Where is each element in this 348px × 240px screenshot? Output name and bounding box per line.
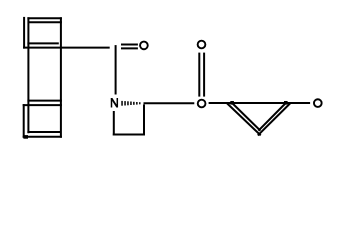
cage bottom-left corner junction dot — [23, 135, 28, 139]
vertex dot at bicyclobutane back-left bridgehead — [230, 101, 234, 105]
atom label O (carbonate carbonyl oxygen, top) — [198, 41, 206, 49]
hash dash 6 — [136, 102, 138, 105]
vertex dot at bicyclobutane back-right bridgehead — [284, 101, 288, 105]
bicyclobutane outer (front) right edge — [258, 103, 291, 135]
bond cage to carbonyl C — [23, 47, 110, 49]
amide C-N vertical bond — [115, 45, 117, 94]
top square outer top edge — [27, 17, 62, 19]
atom label O (right oxygen) — [314, 99, 322, 107]
amide C=O double bond line 1 — [121, 44, 138, 46]
bottom square inner top edge — [27, 100, 62, 102]
bond ester O to bicyclobutane vertex — [209, 102, 228, 104]
hash dash 4 — [130, 102, 132, 106]
azetidine bottom bond — [113, 134, 145, 136]
bond azetidine C3 to ester O — [144, 102, 195, 104]
cage right vertical edge — [60, 17, 62, 138]
carbonate C=O double bond line 1 — [198, 53, 200, 97]
top square inner top edge — [28, 21, 62, 23]
top square outer-left vertical edge — [23, 17, 25, 49]
bottom square outer-left vertical edge — [23, 104, 25, 138]
bottom square outer bottom edge — [23, 136, 62, 138]
atom label N (azetidine nitrogen) — [112, 98, 118, 108]
hash dash 7 — [139, 102, 140, 104]
cage inner-left long vertical edge — [27, 17, 29, 133]
bond bicyclobutane to right O — [291, 102, 311, 104]
hash dash 2 — [124, 101, 126, 105]
hash dash 3 — [127, 101, 129, 105]
azetidine right vertical bond — [143, 104, 145, 135]
atom label O (amide carbonyl oxygen) — [140, 42, 148, 50]
hash dash 5 — [133, 102, 135, 105]
top square inner bottom edge — [27, 42, 58, 44]
bicyclobutane inner (back) left edge — [232, 103, 260, 131]
bottom square inner bottom edge — [27, 131, 60, 133]
hashed stereo bond from N to azetidine C3: dash 1 — [121, 101, 123, 106]
carbonate C=O double bond line 2 — [203, 53, 205, 97]
bicyclobutane outer (front) left edge — [227, 103, 261, 135]
bottom square outer top edge — [23, 104, 62, 106]
bicyclobutane inner (back) right edge — [258, 103, 285, 131]
azetidine left vertical bond — [113, 111, 115, 136]
bicyclobutane top edge (collinear with O bonds) — [227, 102, 291, 104]
amide C=O double bond line 2 — [121, 47, 138, 49]
atom label O (ester oxygen, bottom) — [198, 100, 206, 108]
